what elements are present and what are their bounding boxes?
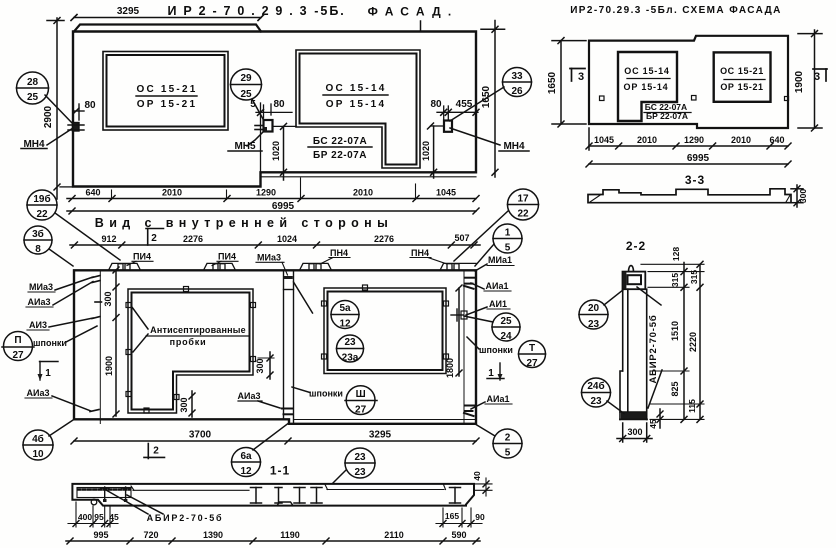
svg-text:ПН4: ПН4 bbox=[411, 248, 429, 258]
svg-text:Ш: Ш bbox=[356, 389, 366, 400]
anchor MN4 left detail bbox=[68, 104, 84, 131]
svg-text:29: 29 bbox=[240, 73, 252, 84]
svg-text:80: 80 bbox=[430, 99, 442, 110]
svg-text:1020: 1020 bbox=[271, 141, 281, 161]
svg-text:115: 115 bbox=[687, 399, 697, 413]
svg-text:590: 590 bbox=[451, 530, 466, 540]
right opening inner view bbox=[324, 288, 446, 374]
dim 1020 right (vertical) bbox=[431, 126, 437, 178]
keyway I-symbols 1-1 bbox=[251, 488, 461, 504]
AI1 cross connector bbox=[451, 309, 467, 321]
svg-text:640: 640 bbox=[85, 188, 100, 198]
svg-text:90: 90 bbox=[475, 512, 485, 522]
svg-text:2: 2 bbox=[151, 233, 157, 244]
svg-text:АБИР2-70-5б: АБИР2-70-5б bbox=[147, 513, 224, 523]
callout 19b/22 top-left bbox=[27, 190, 120, 260]
schema panel outline bbox=[589, 36, 788, 128]
svg-text:ОС 15-14: ОС 15-14 bbox=[624, 66, 669, 76]
lifting loop plates PN4 (top edge) bbox=[109, 263, 477, 270]
dimension 3295 top bbox=[71, 15, 264, 21]
section marker 1 left bbox=[38, 362, 59, 381]
svg-text:19б: 19б bbox=[33, 193, 50, 205]
window opening OC15-14 + BC22-07A (L-shape) bbox=[296, 50, 420, 168]
callout 17/22 top-right bbox=[454, 189, 539, 261]
svg-text:1: 1 bbox=[45, 368, 51, 379]
section marker 1 right bbox=[498, 363, 503, 380]
bottom dim row 3700/3295 bbox=[71, 438, 479, 444]
callout 23/23a (in opening) bbox=[337, 335, 364, 362]
title ФАСАД bbox=[167, 4, 458, 19]
svg-text:АИа3: АИа3 bbox=[27, 388, 50, 398]
2-2 dim line outer (315/2220/115) bbox=[697, 261, 703, 422]
svg-text:300: 300 bbox=[798, 189, 808, 203]
svg-text:20: 20 bbox=[588, 303, 600, 314]
svg-text:315: 315 bbox=[689, 270, 699, 284]
dim 300 bottom of left opening bbox=[189, 391, 195, 417]
svg-text:33: 33 bbox=[511, 71, 523, 82]
svg-text:640: 640 bbox=[769, 135, 784, 145]
svg-text:6995: 6995 bbox=[687, 153, 710, 164]
svg-text:Вид с внутренней стороны: Вид с внутренней стороны bbox=[95, 216, 393, 230]
callout 5a/12 (in opening) bbox=[331, 301, 359, 329]
inner view top dim row 912/2276/1024/2276/507 bbox=[70, 242, 480, 248]
callout 23/23 bottom bbox=[333, 448, 375, 483]
dim row 400/95/45 bbox=[68, 502, 118, 527]
svg-text:24: 24 bbox=[500, 331, 512, 342]
svg-text:23: 23 bbox=[590, 396, 602, 407]
svg-text:400: 400 bbox=[78, 512, 92, 522]
svg-text:ОР 15-21: ОР 15-21 bbox=[720, 82, 763, 92]
svg-text:1800: 1800 bbox=[445, 358, 455, 378]
callout 29/25 bbox=[231, 69, 264, 119]
svg-text:1: 1 bbox=[505, 228, 511, 239]
svg-text:22: 22 bbox=[517, 209, 529, 220]
svg-text:1020: 1020 bbox=[421, 141, 431, 161]
svg-text:165: 165 bbox=[445, 511, 459, 521]
left edge connector marks bbox=[90, 276, 102, 412]
svg-text:23: 23 bbox=[588, 319, 600, 330]
svg-text:МИа1: МИа1 bbox=[488, 255, 512, 265]
svg-text:5: 5 bbox=[505, 448, 511, 459]
svg-text:АИа1: АИа1 bbox=[486, 281, 509, 291]
svg-text:МН5: МН5 bbox=[234, 141, 256, 152]
svg-text:шпонки: шпонки bbox=[479, 345, 513, 355]
callout 4b/10 bottom-left bbox=[23, 420, 73, 460]
svg-text:128: 128 bbox=[671, 247, 681, 261]
svg-text:МН4: МН4 bbox=[503, 141, 525, 152]
svg-text:1510: 1510 bbox=[670, 321, 680, 341]
bottom foot 2-2 bbox=[621, 413, 646, 420]
svg-text:17: 17 bbox=[517, 194, 529, 205]
svg-text:пробки: пробки bbox=[170, 337, 207, 347]
svg-text:3700: 3700 bbox=[189, 430, 212, 441]
svg-text:2-2: 2-2 bbox=[626, 239, 646, 253]
dim 300/1900 left of opening bbox=[113, 267, 119, 417]
svg-text:3295: 3295 bbox=[117, 6, 140, 17]
svg-text:300: 300 bbox=[627, 427, 642, 437]
svg-text:315: 315 bbox=[670, 273, 680, 287]
callout 24b/23 bbox=[582, 378, 625, 414]
leader from joint to 5a circle bbox=[294, 282, 313, 313]
top cap 2-2 bbox=[623, 272, 646, 290]
svg-text:ФАСАД.: ФАСАД. bbox=[368, 5, 459, 19]
svg-text:27: 27 bbox=[526, 358, 538, 369]
svg-text:5а: 5а bbox=[339, 303, 351, 314]
plug marks on right opening bbox=[322, 285, 449, 359]
svg-text:995: 995 bbox=[93, 530, 108, 540]
svg-text:2110: 2110 bbox=[384, 530, 404, 540]
callout 28/25 bbox=[17, 72, 74, 124]
callout 1/5 right bbox=[475, 224, 522, 266]
section marker 2 bottom bbox=[144, 444, 165, 459]
dim 165/90 right 1-1 bbox=[436, 508, 482, 527]
svg-text:1-1: 1-1 bbox=[270, 464, 290, 478]
inner edge lines bbox=[100, 270, 476, 423]
svg-text:2: 2 bbox=[505, 433, 511, 444]
facade bottom dimension row 640/2010/1290/2010/1045 bbox=[67, 178, 479, 202]
schema window OC15-14 (L) bbox=[618, 52, 677, 121]
svg-text:2220: 2220 bbox=[688, 332, 698, 352]
facade overall dim 6995 bbox=[67, 208, 479, 214]
svg-text:24б: 24б bbox=[587, 380, 604, 392]
svg-text:25: 25 bbox=[500, 316, 512, 327]
dim 2900 left vertical bbox=[47, 18, 64, 200]
svg-text:12: 12 bbox=[240, 466, 252, 477]
svg-text:ОР 15-21: ОР 15-21 bbox=[137, 99, 197, 110]
svg-text:ПН4: ПН4 bbox=[330, 248, 348, 258]
svg-text:40: 40 bbox=[472, 471, 482, 481]
svg-text:2010: 2010 bbox=[162, 188, 182, 198]
joint notch bottom 1-1 bbox=[277, 502, 293, 506]
svg-text:БС 22-07А: БС 22-07А bbox=[313, 136, 367, 147]
svg-text:23: 23 bbox=[354, 452, 366, 463]
anchor MN4 right detail bbox=[428, 106, 480, 132]
svg-text:ИР2-70.29.3: ИР2-70.29.3 bbox=[167, 4, 313, 18]
svg-text:1900: 1900 bbox=[104, 356, 114, 376]
svg-text:720: 720 bbox=[143, 530, 158, 540]
svg-text:2276: 2276 bbox=[183, 234, 203, 244]
labels PN4 row bbox=[133, 248, 429, 263]
svg-text:1650: 1650 bbox=[547, 71, 558, 94]
svg-text:АИ3: АИ3 bbox=[29, 320, 47, 330]
svg-text:1045: 1045 bbox=[436, 188, 456, 198]
label MN4 right bbox=[450, 128, 500, 145]
svg-text:5: 5 bbox=[505, 243, 511, 254]
schema bottom dim row 1045/2010/1290/2010/640 bbox=[586, 128, 791, 150]
svg-text:1024: 1024 bbox=[277, 234, 297, 244]
svg-text:2276: 2276 bbox=[374, 234, 394, 244]
svg-text:912: 912 bbox=[101, 234, 116, 244]
svg-text:АИа3: АИа3 bbox=[238, 391, 261, 401]
dim 300 of 3-3 bbox=[791, 185, 803, 207]
plug circle under left box bbox=[91, 499, 97, 505]
inner panel outline bbox=[74, 270, 476, 424]
vertical joint between panel halves bbox=[284, 270, 294, 424]
dim 300 (2-2 bottom) bbox=[617, 423, 652, 442]
svg-text:1390: 1390 bbox=[203, 530, 223, 540]
text Antiseptirovannye probki bbox=[150, 325, 246, 347]
callout 25/24 right bbox=[464, 313, 520, 341]
svg-text:ИР2-70.29.3 -5Бл. СХЕМА ФАСАД: ИР2-70.29.3 -5Бл. СХЕМА ФАСАДА bbox=[570, 5, 782, 16]
svg-text:6995: 6995 bbox=[272, 201, 295, 212]
svg-text:4б: 4б bbox=[32, 433, 44, 445]
svg-text:1190: 1190 bbox=[280, 530, 300, 540]
dim 1020 left (vertical) bbox=[281, 126, 287, 180]
svg-text:825: 825 bbox=[670, 381, 680, 396]
svg-text:1650: 1650 bbox=[481, 85, 492, 108]
label MN5 bbox=[247, 131, 264, 146]
svg-text:27: 27 bbox=[355, 405, 367, 416]
profile 3-3 bbox=[588, 189, 791, 203]
svg-text:1045: 1045 bbox=[594, 135, 614, 145]
svg-text:ПИ4: ПИ4 bbox=[133, 252, 151, 262]
lifting hook 2-2 bbox=[629, 266, 634, 272]
dim 1900 schema right bbox=[798, 30, 822, 131]
small plug marks schema bbox=[600, 96, 605, 101]
callout 3b/8 bbox=[24, 226, 73, 266]
svg-text:300: 300 bbox=[179, 397, 189, 412]
svg-text:АИ1: АИ1 bbox=[489, 299, 507, 309]
schema window OC15-21 bbox=[714, 52, 771, 101]
svg-text:МИа3: МИа3 bbox=[29, 282, 53, 292]
svg-text:300: 300 bbox=[255, 358, 265, 373]
MIa3 joint connector dash bbox=[284, 276, 293, 279]
svg-text:3-3: 3-3 bbox=[685, 173, 705, 187]
body 2-2 bbox=[620, 289, 647, 419]
1-1 bar outline bbox=[72, 484, 474, 506]
svg-text:25: 25 bbox=[27, 92, 39, 103]
anchor MN5 detail bbox=[255, 103, 296, 172]
svg-text:80: 80 bbox=[273, 99, 285, 110]
section marker 2 top bbox=[146, 229, 164, 246]
svg-text:АИа1: АИа1 bbox=[487, 394, 510, 404]
bottom dim row 995/720/1390/1190/2110/590 bbox=[66, 538, 480, 544]
svg-text:2: 2 bbox=[153, 446, 159, 457]
svg-text:МН4: МН4 bbox=[23, 139, 45, 150]
svg-text:1290: 1290 bbox=[256, 188, 276, 198]
svg-text:25: 25 bbox=[240, 89, 252, 100]
callout 6a/12 bbox=[232, 424, 289, 477]
svg-text:2010: 2010 bbox=[731, 135, 751, 145]
dim 1650 schema left bbox=[552, 38, 586, 127]
svg-text:ПИ4: ПИ4 bbox=[218, 252, 236, 262]
svg-text:27: 27 bbox=[12, 350, 24, 361]
svg-text:1290: 1290 bbox=[684, 135, 704, 145]
svg-text:26: 26 bbox=[511, 86, 523, 97]
svg-text:28: 28 bbox=[27, 77, 39, 88]
svg-text:507: 507 bbox=[454, 233, 469, 243]
svg-text:10: 10 bbox=[32, 449, 44, 460]
callout 2/5 right bottom bbox=[476, 425, 522, 459]
svg-text:ОС 15-14: ОС 15-14 bbox=[326, 83, 387, 94]
svg-text:80: 80 bbox=[84, 100, 96, 111]
svg-text:БР 22-07А: БР 22-07А bbox=[313, 150, 367, 161]
callout 33/26 bbox=[450, 68, 532, 122]
section marker 3 right bbox=[813, 69, 827, 81]
1-1 left insulated box bbox=[77, 488, 131, 498]
leader foot diagonal bbox=[648, 370, 662, 408]
svg-text:1900: 1900 bbox=[794, 70, 805, 93]
dim 40 right end 1-1 bbox=[474, 478, 492, 496]
svg-text:22: 22 bbox=[36, 209, 48, 220]
callout 20/23 bbox=[579, 290, 624, 330]
svg-text:ОР 15-14: ОР 15-14 bbox=[326, 99, 386, 110]
right edge connector marks bbox=[464, 278, 474, 416]
dim 1800 right opening bbox=[456, 285, 462, 376]
svg-text:шпонки: шпонки bbox=[33, 338, 67, 348]
svg-text:-5Б.: -5Б. bbox=[314, 4, 346, 18]
dim 1650 right vertical bbox=[421, 21, 505, 178]
2-2 dim extension lines bbox=[641, 264, 704, 419]
schema overall 6995 bbox=[586, 161, 791, 167]
svg-text:45: 45 bbox=[648, 419, 658, 429]
svg-text:45: 45 bbox=[109, 512, 119, 522]
svg-text:3: 3 bbox=[578, 71, 584, 83]
svg-text:12: 12 bbox=[339, 319, 351, 330]
svg-text:2900: 2900 bbox=[43, 105, 54, 128]
leaders ABIR label 1-1 bbox=[106, 490, 148, 514]
label MN4 left bbox=[47, 128, 73, 145]
dim 300 right of left opening bbox=[258, 352, 274, 379]
svg-text:ОС 15-21: ОС 15-21 bbox=[720, 66, 764, 76]
svg-text:23: 23 bbox=[354, 467, 366, 478]
svg-text:2010: 2010 bbox=[637, 135, 657, 145]
facade panel outline bbox=[60, 25, 476, 187]
svg-text:МИа3: МИа3 bbox=[257, 253, 281, 263]
1-1 inner ledge lines bbox=[131, 485, 446, 491]
svg-text:АБИР2-70-5б: АБИР2-70-5б bbox=[648, 315, 659, 384]
svg-text:3295: 3295 bbox=[369, 430, 392, 441]
svg-text:ОР 15-14: ОР 15-14 bbox=[624, 82, 669, 92]
svg-text:6а: 6а bbox=[240, 451, 252, 462]
svg-text:Т: Т bbox=[529, 343, 535, 354]
svg-text:Антисептированные: Антисептированные bbox=[150, 325, 246, 335]
svg-text:300: 300 bbox=[103, 291, 113, 306]
window opening OC15-21 bbox=[103, 52, 228, 131]
svg-text:АИа3: АИа3 bbox=[28, 297, 51, 307]
leader cap to label bbox=[637, 287, 661, 305]
2-2 dim line inner (315/1510/825) bbox=[681, 263, 687, 423]
svg-text:2010: 2010 bbox=[353, 188, 373, 198]
plug marks on left opening bbox=[126, 287, 256, 414]
T-anchors in 1-1 left bbox=[101, 487, 130, 502]
svg-text:3б: 3б bbox=[32, 228, 44, 240]
section marker 3 left bbox=[570, 69, 585, 82]
svg-text:П: П bbox=[14, 335, 21, 346]
svg-text:1: 1 bbox=[488, 368, 494, 379]
svg-text:23а: 23а bbox=[342, 353, 359, 364]
svg-text:ОС 15-21: ОС 15-21 bbox=[137, 84, 198, 95]
svg-text:23: 23 bbox=[344, 337, 356, 348]
dim 45 (2-2 foot) bbox=[657, 409, 663, 428]
left opening (L-shape) inner view bbox=[128, 289, 253, 413]
svg-text:95: 95 bbox=[94, 512, 104, 522]
svg-text:8: 8 bbox=[35, 244, 41, 255]
svg-text:шпонки: шпонки bbox=[309, 389, 343, 399]
